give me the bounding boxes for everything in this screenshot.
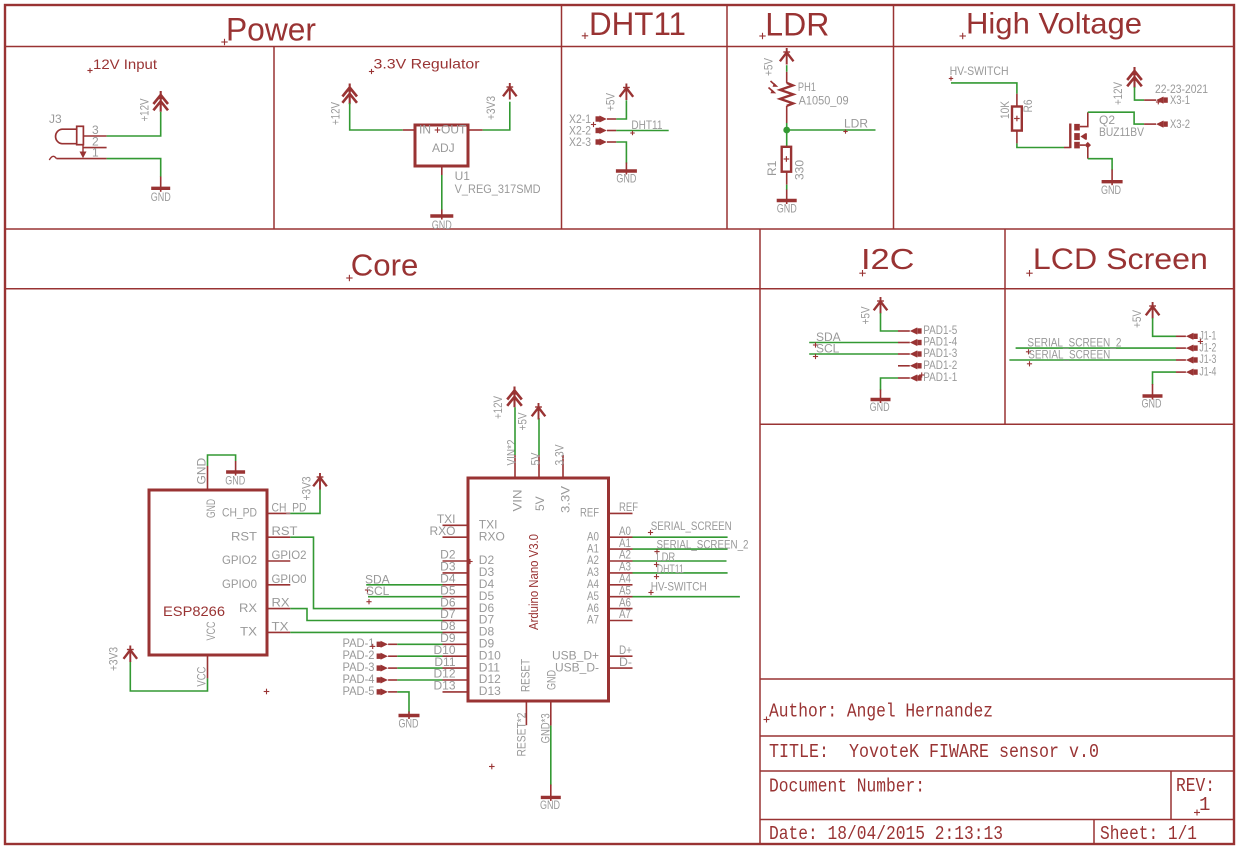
section title High Voltage [960,8,1143,41]
ESP8266 CH_PD outside label [272,500,307,514]
label GND (PAD-5) [399,717,419,731]
label +5V (LCD) [1130,310,1144,328]
Arduino D12 outside label [433,667,455,681]
ESP8266 GPIO0 pin [267,584,290,586]
connector pin PAD1-3 [898,350,922,357]
Arduino D3 outside label [440,560,456,574]
ESP8266 RX outside label [272,596,290,610]
svg-text:Arduino Nano V3.0: Arduino Nano V3.0 [526,534,541,630]
net label SCL (I2C) [813,342,840,360]
svg-text:3.3V: 3.3V [553,445,567,466]
transistor Q2 MOSFET symbol [1070,112,1091,159]
Arduino D7 outside label [440,607,456,621]
connector pin J1-2 [1176,345,1198,352]
J3 pin 1 [49,146,106,160]
connector pin J1-3 label [1199,352,1216,366]
ESP8266 GND pin inside label [204,499,218,518]
Arduino USB_D- outside label [619,655,632,669]
svg-text:GPIO2: GPIO2 [272,548,307,562]
supply +5V (Arduino 5V) [532,403,546,420]
label +12V (Arduino VIN) [491,396,505,419]
svg-text:TX: TX [272,619,289,633]
Arduino USB_D+ outside label [619,643,632,657]
svg-text:GND: GND [204,499,218,518]
Arduino USB_D- pin [609,667,633,669]
svg-text:RXO: RXO [479,529,505,543]
svg-text:GND: GND [540,798,560,812]
ESP8266 TX inside label [240,625,257,639]
Arduino D6 outside label [440,595,456,609]
Q2 reference label [1099,113,1115,127]
Arduino A6 outside label [619,595,631,609]
svg-text:D13: D13 [433,679,455,693]
wire R6 to Q2 gate [1017,143,1064,147]
Arduino D8 pin [443,631,469,633]
title block line Document|Date [760,819,1234,821]
ESP8266 VCC pin (bottom) [207,655,209,678]
U1 pin label ADJ [432,141,455,155]
svg-text:U1: U1 [455,169,471,183]
wire ESP VCC to +3V3 [130,662,207,692]
wire Arduino A2 net LDR [633,560,727,562]
Arduino RESET inside label [519,658,533,692]
wire PAD-3 to Arduino D11 [397,667,442,669]
svg-text:+12V: +12V [1111,82,1125,105]
svg-text:GND: GND [151,190,171,204]
svg-text:SERIAL_SCREEN: SERIAL_SCREEN [651,519,732,533]
label GND (I2C) [870,400,890,414]
svg-text:RST: RST [272,524,299,538]
svg-text:V_REG_317SMD: V_REG_317SMD [455,182,541,196]
Arduino A6 inside label [587,601,599,615]
label +5V (Arduino 5V) [516,413,530,431]
svg-text:+12V: +12V [329,102,343,125]
wire +12V to regulator IN [350,103,403,130]
resistor R6 bottom pin [1016,131,1018,144]
connector pin PAD-2 [377,653,398,660]
svg-text:A7: A7 [587,613,599,627]
svg-text:REF: REF [619,500,638,514]
svg-text:+5V: +5V [604,93,618,111]
title block line TITLE|Document [760,770,1234,772]
label +5V (DHT11) [604,93,618,111]
frame divider I2C|LCD Screen [1004,229,1006,424]
Arduino A7 inside label [587,613,599,627]
connector pin J1-1 [1176,333,1198,340]
ground GND (I2C) [871,390,891,404]
connector pin PAD1-2 [898,362,922,369]
svg-text:+3V3: +3V3 [107,647,121,671]
ground GND (Arduino) [541,785,561,801]
ground GND (high voltage) [1102,170,1123,186]
wire net LDR [787,129,876,131]
wire +5V to PAD1-5 [881,313,899,331]
Arduino A5 pin [609,596,633,598]
svg-text:GND: GND [545,670,559,690]
Arduino D12 pin [443,679,469,681]
connector pin PAD-2 label [343,648,375,662]
wire PAD-5 to GND [397,692,409,713]
frame divider LDR|High Voltage [893,5,895,229]
svg-text:X3-1: X3-1 [1170,93,1190,107]
svg-text:VIN*2: VIN*2 [505,439,519,465]
R6 value label 10K [998,101,1012,119]
connector pin PAD1-2 label [923,358,957,372]
ESP8266 TX outside label [272,619,289,633]
svg-text:TITLE: YovoteK FIWARE sensor: TITLE: YovoteK FIWARE sensor v.0 [769,741,1099,763]
Arduino RXO inside label [479,529,505,543]
supply +3V3 (regulator) [503,83,517,100]
ground GND (ESP top) [226,461,245,476]
net label LDR [843,117,868,134]
connector pin J1-3 [1176,356,1198,363]
ESP8266 name label [163,603,225,619]
ESP8266 GPIO0 inside label [222,577,257,591]
svg-text:LDR: LDR [844,117,868,131]
Arduino D6 inside label [479,601,495,615]
Arduino D2 outside label [440,548,456,562]
junction node LDR [783,127,790,134]
Arduino USB_D+ pin [609,655,633,657]
frame divider Core|right column [759,229,761,844]
label GND (regulator) [432,218,452,232]
Arduino A1 pin [609,548,633,550]
svg-text:ESP8266: ESP8266 [163,603,225,619]
wire junction to R1 [786,130,788,147]
Arduino A2 outside label [619,548,631,562]
Arduino A2 pin [609,560,633,562]
supply +12V (high voltage) [1127,67,1142,88]
wire Q2 source to GND [1088,159,1112,170]
wire PAD-4 to Arduino D12 [397,679,442,681]
svg-text:CH_PD: CH_PD [222,506,257,520]
ESP8266 RST pin [267,536,290,538]
svg-text:IN: IN [419,123,431,137]
connector pin PAD1-1 [898,374,922,381]
label +3V3 (regulator) [484,96,498,120]
Arduino part origin cross [467,559,472,564]
Arduino VIN inside label [511,490,525,512]
supply +5V (DHT11) [620,84,634,101]
origin cross below Arduino [489,764,495,770]
frame line below I2C/LCD sections [760,423,1234,425]
frame divider DHT11|LDR [726,5,728,229]
frame line below section titles [5,46,1234,48]
Arduino D10 outside label [433,643,455,657]
regulator U1 ADJ pin [441,166,443,175]
Arduino A0 inside label [587,529,599,543]
label GND (LCD) [1142,397,1162,411]
svg-text:D13: D13 [479,684,501,698]
wire regulator OUT to +3V3 [483,102,510,130]
label GND (12V Input) [151,190,171,204]
wire J3 pin3 to +12V [107,112,161,136]
Arduino D12 inside label [479,672,501,686]
svg-text:X2-3: X2-3 [569,135,591,149]
U1 value label V_REG_317SMD [455,182,541,196]
label +12V (high voltage) [1111,82,1125,105]
svg-text:VCC: VCC [204,621,218,640]
svg-text:R1: R1 [765,160,779,176]
svg-text:12V Input: 12V Input [93,56,157,72]
net label HV-SWITCH (high voltage) [949,64,1009,81]
wire net SDA (I2C) [809,342,898,344]
svg-text:OUT: OUT [441,123,467,137]
svg-text:SCL: SCL [366,584,390,598]
net label SERIAL_SCREEN_2 (LCD) [1026,336,1122,355]
Arduino D11 outside label [434,655,455,669]
Arduino 3.3V pin (top) [562,455,564,478]
wire net SERIAL_SCREEN (LCD) [1009,359,1176,361]
label +3V3 (ESP VCC) [107,647,121,671]
Arduino 5V pin (top) [538,455,540,478]
section title I2C [859,244,914,276]
wire net SCL [368,596,443,598]
svg-text:RX: RX [272,596,290,610]
Arduino GND pin (bottom) [550,701,552,726]
resistor R6 body [1012,107,1022,131]
svg-text:HV-SWITCH: HV-SWITCH [950,64,1009,78]
Arduino A3 outside label [619,560,631,574]
Arduino D4 inside label [479,577,495,591]
part origin cross at PAD-1 [370,644,375,649]
svg-text:DHT11: DHT11 [589,6,686,42]
Arduino RESET outside label RESET*2 [515,712,529,756]
svg-text:+5V: +5V [1130,310,1144,328]
Arduino D11 pin [443,667,469,669]
title block Date text [769,823,1003,845]
Arduino D9 pin [443,643,469,645]
svg-text:RESET: RESET [519,658,533,692]
wire ESP GND to ground [208,455,236,466]
Arduino D4 pin [443,584,469,586]
Arduino TXI inside label [479,518,498,532]
photoresistor PH1 zigzag [769,81,794,106]
ESP8266 RX inside label [239,601,257,615]
wire net DHT11 [616,130,668,132]
svg-text:GND: GND [1101,183,1121,197]
net label GND (ESP top wire) [195,458,209,485]
Arduino D9 inside label [479,637,495,651]
ESP8266 VCC outside label [195,666,209,686]
wire +5V to PH1 [786,65,788,72]
Arduino REF inside label [580,506,599,520]
svg-text:GND: GND [870,400,890,414]
Arduino TXI outside label [437,512,456,526]
svg-text:I2C: I2C [861,244,915,276]
voltage regulator U1 body [415,125,468,166]
Arduino A1 inside label [587,541,599,555]
connector pin X2-3 [596,139,617,146]
connector pin PAD1-4 [898,339,922,346]
svg-text:GND: GND [1142,397,1162,411]
wire ESP RX to Arduino D7 [290,609,442,621]
svg-text:TX: TX [240,625,257,639]
Arduino USB_D+ inside label [552,648,599,662]
Arduino A7 pin [609,620,633,622]
section title Power [221,11,316,47]
wire Q2 drain to X3-2 [1088,112,1144,124]
net label DHT11 [630,118,662,135]
svg-text:Date: 18/04/2015 2:13:13: Date: 18/04/2015 2:13:13 [769,823,1003,845]
section title Core [346,248,418,283]
connector pin X2-1 [596,116,617,123]
R1 reference label [765,160,779,176]
svg-text:DHT11: DHT11 [631,118,662,132]
svg-text:5V: 5V [533,496,547,511]
connector J3 label [49,112,62,126]
section title LDR [759,6,829,42]
R1 value label 330 [793,160,807,180]
connector pin PAD1-3 label [923,346,957,360]
Arduino D5 inside label [479,589,495,603]
section title LCD Screen [1026,243,1208,276]
connector pin PAD-5 [377,688,398,695]
ESP8266 GPIO2 pin [267,560,290,562]
section title DHT11 [582,6,686,42]
wire PAD-1 to Arduino D9 [397,643,442,645]
subsection title 12V Input [87,56,157,73]
svg-text:Document Number:: Document Number: [769,776,925,798]
supply +3V3 (CH_PD) [313,473,327,490]
J3 pin 2 [83,135,106,149]
Arduino 3.3V outside label [553,445,567,466]
wire R1 to GND [786,185,788,190]
net label LDR (A2) [654,550,676,567]
wire +12V to X3-1 [1135,87,1145,100]
I2C part origin cross [919,372,924,377]
ESP8266 RST outside label [272,524,299,538]
title block line Author|TITLE [760,735,1234,737]
connector pin X2-2 [596,127,617,134]
connector pin PAD-5 label [343,684,375,698]
Arduino 3.3V inside label [559,486,573,513]
title block REV text [1176,775,1215,797]
svg-text:X3-2: X3-2 [1170,117,1190,131]
connector pin PAD-4 [377,677,398,684]
R6 reference label [1021,99,1035,112]
ESP8266 CH_PD pin [267,512,290,514]
LCD part origin cross [1198,339,1203,344]
frame line below Core/I2C/LCD titles [5,288,1234,290]
connector pin PAD1-4 label [923,335,957,349]
Arduino D13 outside label [433,679,455,693]
svg-text:GPIO0: GPIO0 [222,577,257,591]
connector pin X3-2 label [1170,117,1190,131]
svg-text:+5V: +5V [516,413,530,431]
wire VIN to +12V [514,407,516,455]
svg-text:A1050_09: A1050_09 [799,93,849,107]
Arduino D13 inside label [479,684,501,698]
Arduino A4 outside label [619,572,631,586]
label +3V3 (CH_PD) [300,476,314,500]
wire HV-SWITCH to R6 [951,83,1017,94]
ESP8266 CH_PD inside label [222,506,257,520]
wire ADJ to GND [441,175,443,210]
svg-text:+3V3: +3V3 [484,96,498,120]
svg-text:BUZ11BV: BUZ11BV [1099,125,1144,139]
ground GND (12V Input) [151,177,170,192]
title block revision number [1194,794,1210,816]
Arduino D11 inside label [479,660,500,674]
Arduino D10 pin [443,655,469,657]
Arduino D2 pin [443,560,469,562]
svg-text:RESET*2: RESET*2 [515,712,529,756]
svg-text:A7: A7 [619,607,631,621]
svg-text:GND: GND [399,717,419,731]
ground GND (regulator) [430,210,453,220]
Arduino D7 pin [443,620,469,622]
Arduino A6 pin [609,608,633,610]
wire ESP TX to Arduino D8 [290,631,442,633]
svg-text:GND: GND [432,218,452,232]
net label DHT11 (A3) [654,562,684,579]
Arduino TXI pin [443,524,469,526]
PH1 value label A1050_09 [799,93,849,107]
wire net SCL (I2C) [809,353,898,355]
connector pin PAD1-5 [898,327,922,334]
title block Author text [764,701,994,723]
Arduino D3 inside label [479,565,495,579]
Arduino GND inside label [545,670,559,690]
wire X2-1 to +5V [616,100,626,119]
ESP8266 GPIO0 outside label [272,572,307,586]
Arduino D10 inside label [479,648,501,662]
svg-text:Core: Core [351,248,419,283]
svg-text:High Voltage: High Voltage [966,8,1142,41]
connector pin X3-1 [1144,97,1168,105]
wire Arduino A1 net SERIAL_SCREEN_2 [633,548,728,550]
wire X2-3 to GND [616,142,626,164]
wire +5V to J1-1 [1153,318,1176,336]
net label SERIAL_SCREEN (LCD) [1027,347,1110,366]
supply +3V3 (ESP VCC) [124,646,138,663]
J3 pin 3 [83,123,106,137]
Arduino D2 inside label [479,553,495,567]
resistor R1 body [782,147,791,172]
Arduino A0 outside label [619,524,631,538]
Arduino A4 pin [609,584,633,586]
svg-text:DHT11: DHT11 [657,562,684,576]
svg-text:VIN: VIN [511,490,525,512]
Arduino RXO outside label [429,524,455,538]
svg-text:5V: 5V [529,453,543,466]
net label SDA [365,572,390,592]
svg-text:+3V3: +3V3 [300,476,314,500]
resistor R6 top pin [1016,94,1018,107]
svg-text:GND: GND [777,202,797,216]
title block line above Author row [760,678,1234,680]
Arduino RXO pin [443,536,469,538]
connector pin PAD-4 label [343,672,375,686]
Arduino A5 outside label [619,583,631,597]
ground GND (DHT11) [616,163,637,175]
photoresistor PH1 top pin [786,72,788,83]
label GND (high voltage) [1101,183,1121,197]
Arduino VIN outside label VIN*2 [505,439,519,465]
ESP8266 GPIO2 inside label [222,553,257,567]
label GND (DHT11) [616,172,636,186]
svg-text:3.3V: 3.3V [559,486,573,513]
Arduino A3 pin [609,572,633,574]
J3 switch arrow [80,145,87,159]
transistor Q2 gate lead [1064,147,1070,149]
Arduino D5 pin [443,596,469,598]
Arduino A0 pin [609,536,633,538]
ESP8266 GPIO2 outside label [272,548,307,562]
Arduino 5V outside label [529,453,543,466]
connector pin PAD1-1 label [923,370,957,384]
